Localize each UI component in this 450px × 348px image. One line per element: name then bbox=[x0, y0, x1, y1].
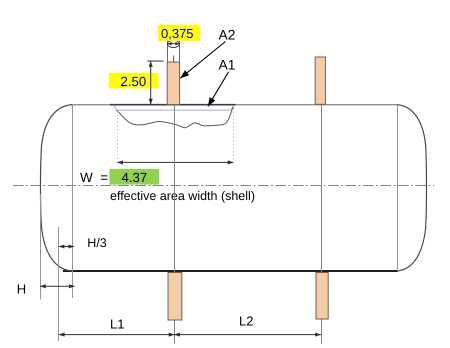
svg-text:L2: L2 bbox=[239, 314, 253, 329]
svg-text:0,375: 0,375 bbox=[161, 26, 194, 41]
left head bbox=[40, 105, 72, 271]
svg-text:2.50: 2.50 bbox=[121, 74, 147, 89]
svg-text:A1: A1 bbox=[219, 58, 236, 73]
dimension L2 bbox=[174, 334, 320, 336]
dimension 2.50 top tick bbox=[147, 60, 163, 62]
horizontal centerline bbox=[13, 185, 434, 187]
shell bottom line bbox=[63, 270, 398, 272]
right head bbox=[397, 105, 427, 271]
W dotted extension right bbox=[233, 108, 235, 161]
yellow value box 0,375 bbox=[158, 25, 200, 41]
H/3 + L1 extension line bbox=[58, 227, 60, 341]
shell top line bbox=[71, 104, 398, 106]
effective area wavy boundary bbox=[117, 107, 234, 128]
right top nozzle bbox=[315, 57, 325, 104]
bore dimension arrows 0.375 bbox=[168, 43, 179, 45]
svg-text:W =: W = bbox=[80, 170, 108, 185]
right leg centerline lower bbox=[321, 320, 323, 344]
nozzle A2 bore ellipse bbox=[167, 40, 179, 47]
leader arrow A2 bbox=[180, 42, 225, 79]
left nozzle/leg centerline upper bbox=[174, 105, 176, 272]
svg-text:4.37: 4.37 bbox=[122, 170, 148, 185]
svg-text:H/3: H/3 bbox=[87, 236, 107, 250]
right support leg bbox=[316, 273, 328, 320]
svg-text:A2: A2 bbox=[219, 27, 236, 42]
leader arrow A1 bbox=[208, 72, 229, 106]
left tangent line bbox=[72, 105, 74, 298]
right tangent line bbox=[397, 105, 399, 271]
shell top darker segment (effective region) bbox=[110, 104, 236, 106]
left support leg bbox=[168, 273, 182, 321]
dimension H bbox=[40, 285, 74, 287]
yellow value box 2.50 bbox=[109, 73, 159, 89]
effective area top line (light blue) bbox=[114, 105, 233, 110]
W dimension arrow bbox=[117, 161, 233, 163]
svg-text:effective area width (shell): effective area width (shell) bbox=[110, 189, 255, 203]
nozzle A2 bore right line bbox=[179, 41, 181, 62]
dimension 2.50 vertical arrow bbox=[150, 61, 152, 104]
svg-text:H: H bbox=[17, 282, 26, 297]
green value box W bbox=[110, 169, 160, 185]
nozzle A2 neck bbox=[167, 62, 179, 105]
nozzle A2 center tick bbox=[173, 56, 175, 63]
dimension L1 bbox=[59, 334, 174, 336]
left leg centerline lower bbox=[174, 320, 176, 343]
dimension H/3 bbox=[59, 246, 74, 248]
svg-text:L1: L1 bbox=[110, 317, 124, 332]
nozzle A2 bore left line bbox=[167, 41, 169, 62]
right nozzle/leg centerline upper bbox=[321, 105, 323, 272]
W dotted extension left bbox=[117, 111, 119, 161]
H extension line (head apex) bbox=[40, 194, 42, 300]
